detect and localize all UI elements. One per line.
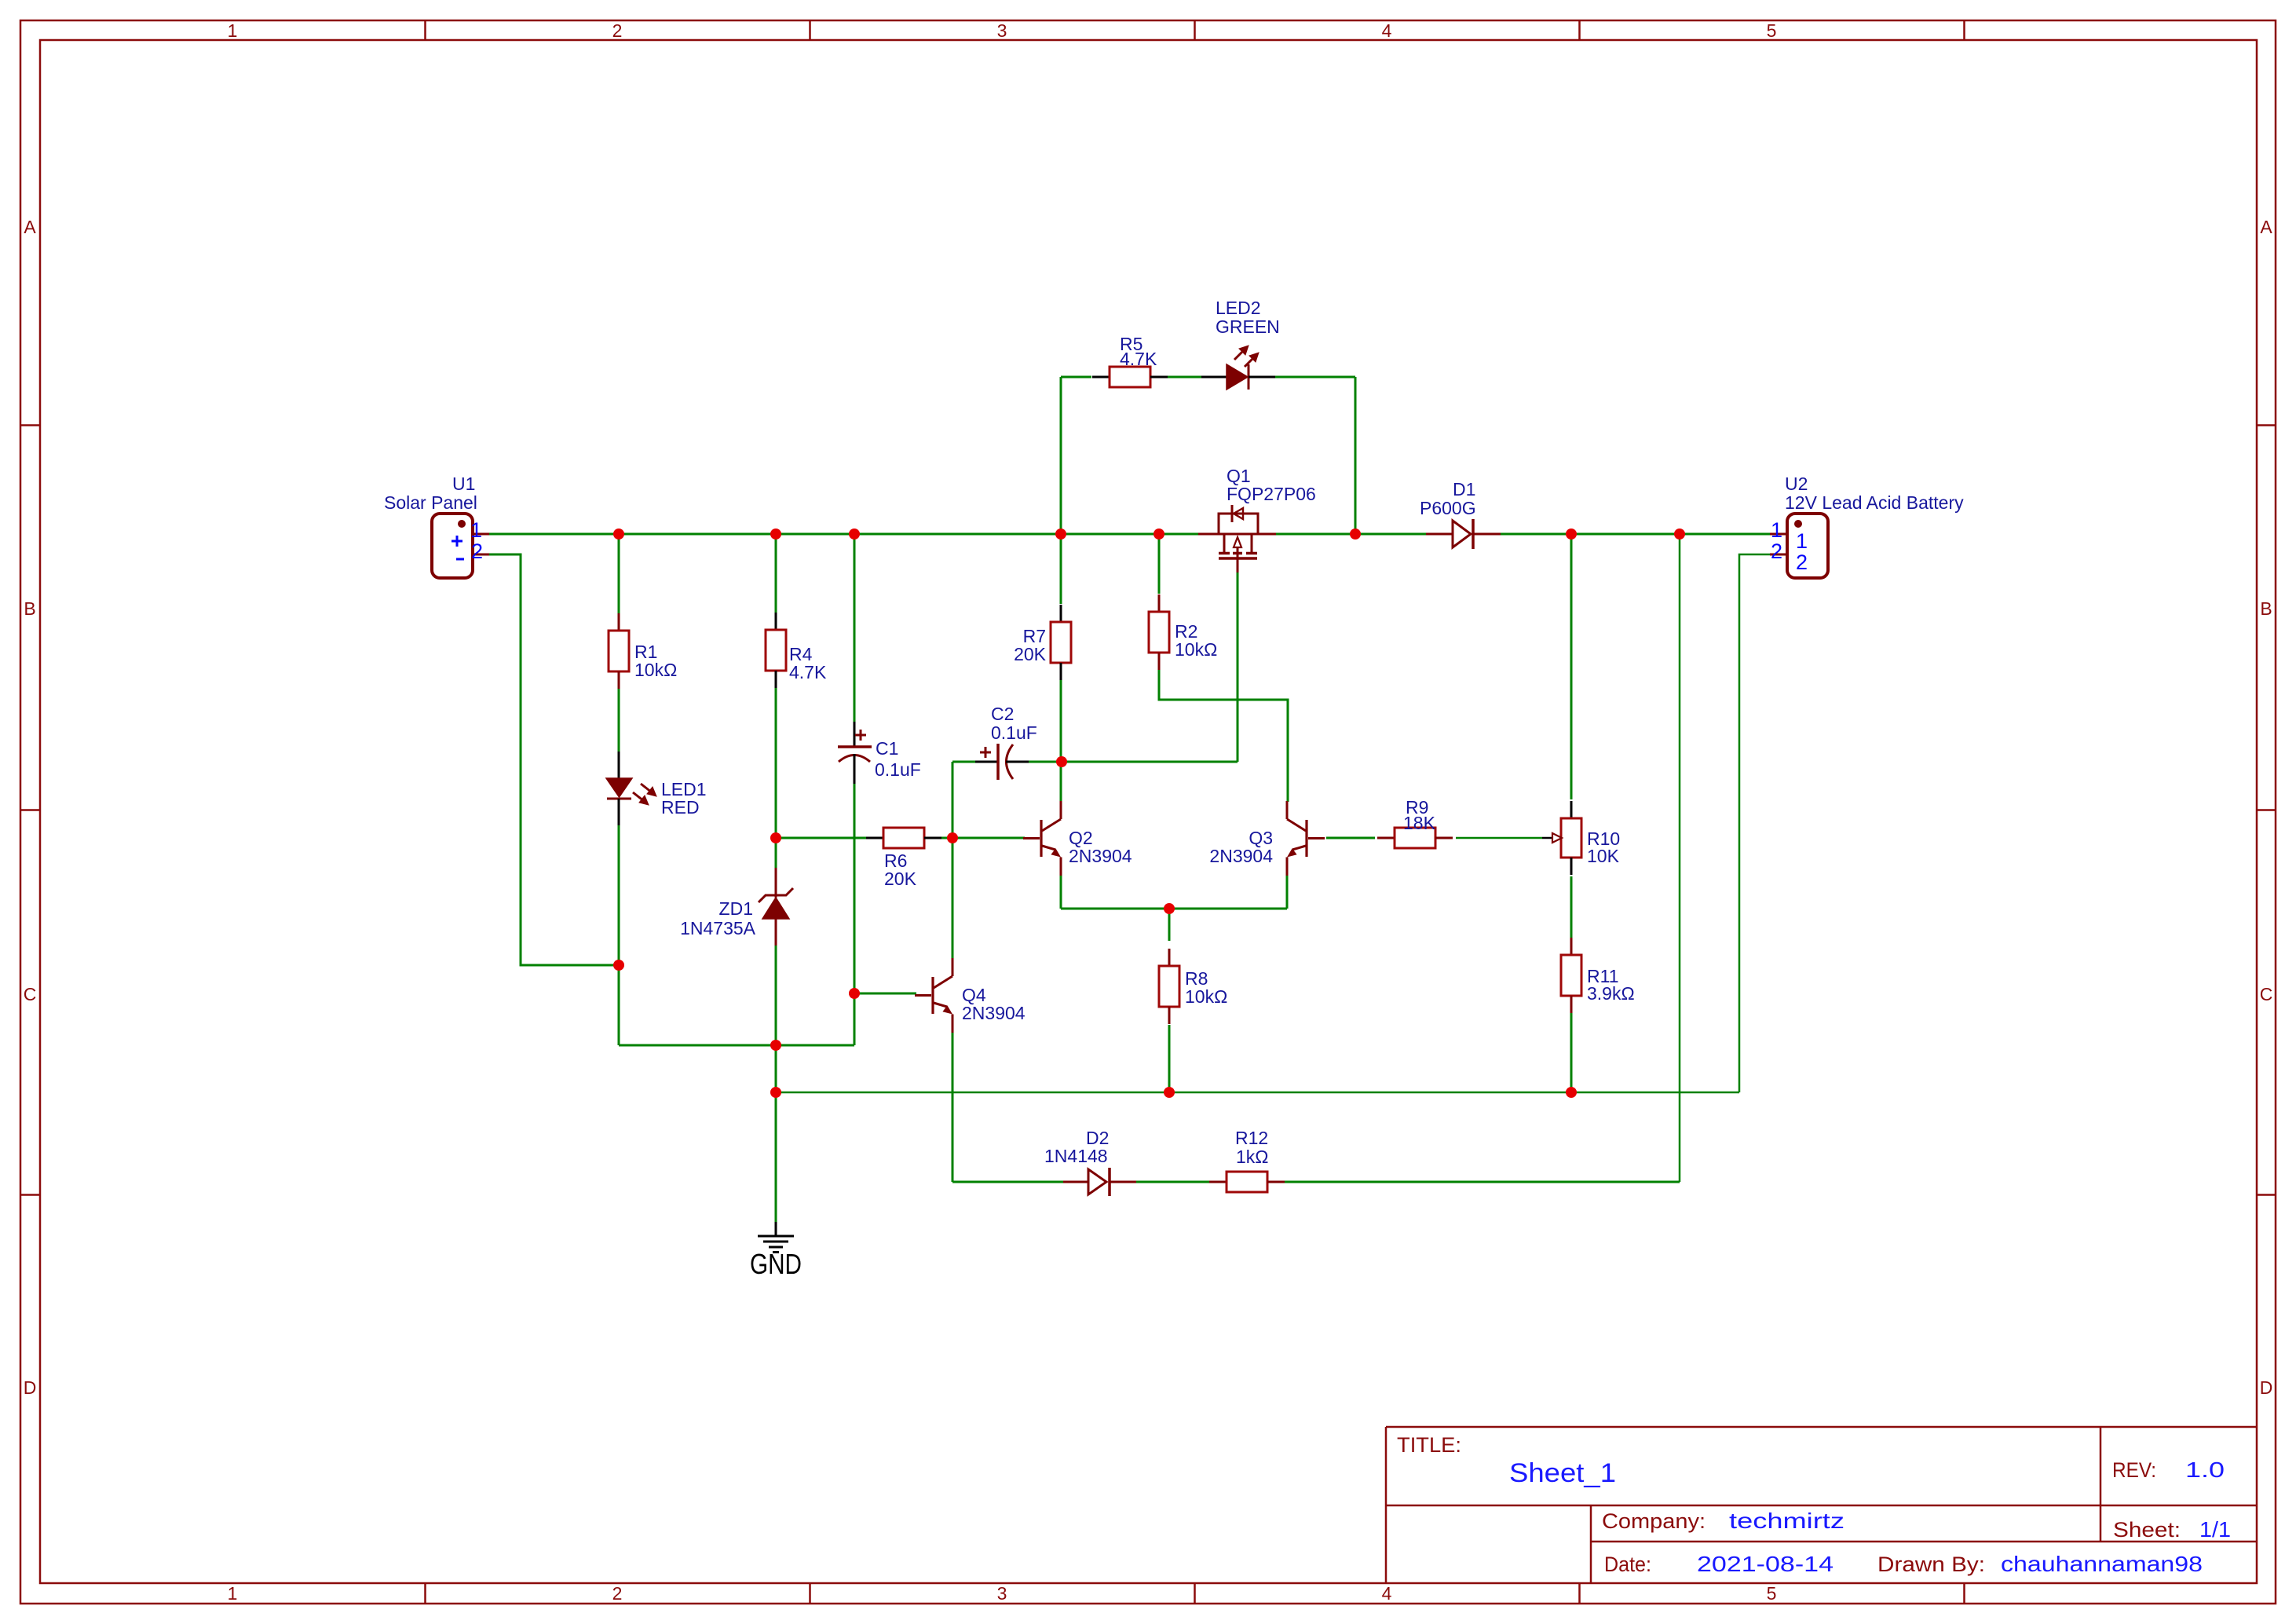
wire R6 left lead from ZD1 net bbox=[776, 837, 867, 839]
junction node J6 bbox=[1350, 529, 1361, 540]
wire D2 line left segment bbox=[952, 1181, 1063, 1183]
svg-text:1/1: 1/1 bbox=[2199, 1517, 2231, 1542]
svg-text:3: 3 bbox=[997, 20, 1007, 41]
wire R7 bottom to C2 junction bbox=[1060, 678, 1062, 762]
wire main positive bus from solar panel pin1 to Q1 source bbox=[489, 533, 1198, 536]
frame tick top 5 bbox=[1963, 20, 1965, 40]
resistor R5 bbox=[1092, 367, 1168, 387]
junction node J13 bbox=[770, 1040, 781, 1051]
capacitor C2 (polarized) bbox=[975, 744, 1029, 780]
junction node J7 bbox=[1566, 529, 1577, 540]
svg-text:2: 2 bbox=[612, 20, 623, 41]
wire R6 right to Q2 base bbox=[941, 837, 1025, 839]
frame tick top 1 bbox=[424, 20, 426, 40]
svg-text:10kΩ: 10kΩ bbox=[1185, 986, 1227, 1007]
svg-text:2N3904: 2N3904 bbox=[1209, 846, 1273, 866]
transistor Q4 NPN 2N3904 bbox=[915, 958, 952, 1033]
svg-text:A: A bbox=[24, 217, 36, 237]
wire Q4 base from junction bbox=[854, 993, 916, 995]
wire R2 bottom jog to Q3 collector bbox=[1159, 669, 1288, 802]
wire C2 left corner down to R6/Q4 junction bbox=[952, 762, 954, 838]
wire R4 top lead from bus bbox=[775, 534, 777, 613]
title block frame bbox=[1386, 1427, 2257, 1583]
capacitor C1 (polarized) bbox=[838, 722, 872, 784]
wire long vertical from bus to D2/R12 line bbox=[1679, 534, 1681, 1182]
svg-text:4: 4 bbox=[1382, 20, 1392, 41]
frame tick left 3 bbox=[20, 1194, 40, 1196]
transistor Q1 P-MOSFET FQP27P06 bbox=[1198, 505, 1276, 572]
wire ground rail y=1391 bbox=[776, 1092, 1739, 1094]
svg-text:C: C bbox=[2260, 984, 2273, 1004]
resistor R6 bbox=[866, 828, 941, 848]
svg-text:5: 5 bbox=[1767, 20, 1777, 41]
svg-text:10K: 10K bbox=[1587, 846, 1620, 866]
svg-text:2N3904: 2N3904 bbox=[962, 1003, 1026, 1023]
svg-text:C1: C1 bbox=[876, 738, 898, 759]
wire R4 bottom to R6 junction and ZD1 cathode bbox=[775, 688, 777, 868]
wire R10 top lead from bus bbox=[1570, 534, 1573, 799]
svg-text:1.0: 1.0 bbox=[2185, 1458, 2225, 1482]
svg-text:5: 5 bbox=[1767, 1583, 1777, 1604]
svg-text:10kΩ: 10kΩ bbox=[1175, 639, 1217, 660]
svg-text:2021-08-14: 2021-08-14 bbox=[1697, 1552, 1834, 1576]
frame tick left 1 bbox=[20, 424, 40, 426]
svg-text:GREEN: GREEN bbox=[1216, 316, 1280, 337]
svg-text:4: 4 bbox=[1382, 1583, 1392, 1604]
resistor R1 bbox=[609, 613, 629, 689]
svg-text:chauhannaman98: chauhannaman98 bbox=[2001, 1552, 2203, 1576]
wire Q3 emitter down to emitter bus bbox=[1286, 876, 1289, 909]
svg-text:1: 1 bbox=[470, 518, 482, 542]
junction node J3 bbox=[849, 529, 860, 540]
svg-text:R12: R12 bbox=[1235, 1128, 1268, 1148]
wire LED1 cathode down to junction and corner bbox=[618, 825, 620, 1045]
svg-text:1kΩ: 1kΩ bbox=[1236, 1147, 1269, 1167]
svg-text:REV:: REV: bbox=[2112, 1458, 2156, 1482]
wire between R5 and LED2 bbox=[1150, 376, 1201, 379]
R10 wiper pin lead bbox=[1542, 837, 1552, 839]
junction node J11 bbox=[947, 832, 958, 843]
svg-text:2: 2 bbox=[1771, 540, 1782, 563]
frame tick right 3 bbox=[2257, 1194, 2276, 1196]
frame tick top 4 bbox=[1578, 20, 1581, 40]
svg-text:Sheet_1: Sheet_1 bbox=[1509, 1458, 1616, 1488]
connector U1 Solar Panel bbox=[432, 514, 489, 578]
svg-text:TITLE:: TITLE: bbox=[1397, 1433, 1461, 1457]
svg-text:0.1uF: 0.1uF bbox=[875, 759, 921, 780]
wire ZD1 anode down through junctions to GND bbox=[775, 946, 777, 1222]
svg-text:4.7K: 4.7K bbox=[1120, 349, 1157, 369]
resistor R8 bbox=[1159, 949, 1179, 1024]
junction node J2 bbox=[770, 529, 781, 540]
potentiometer R10 bbox=[1552, 801, 1581, 875]
junction node J4 bbox=[1055, 529, 1066, 540]
frame tick right 1 bbox=[2257, 424, 2276, 426]
svg-text:Date:: Date: bbox=[1604, 1553, 1651, 1576]
svg-text:1: 1 bbox=[228, 20, 238, 41]
wire R10 bottom to R11 top bbox=[1570, 876, 1573, 938]
resistor R12 bbox=[1209, 1172, 1285, 1192]
svg-text:2: 2 bbox=[612, 1583, 623, 1604]
junction node J12 bbox=[1056, 756, 1067, 767]
wire LED2 to loop right corner bbox=[1275, 376, 1355, 379]
resistor R7 bbox=[1051, 605, 1071, 680]
wire Q4 emitter down to D2 line bbox=[952, 1033, 954, 1182]
svg-text:D: D bbox=[2260, 1377, 2273, 1398]
zener diode ZD1 bbox=[759, 868, 793, 946]
wire C1 top lead from bus bbox=[854, 534, 856, 722]
svg-text:B: B bbox=[24, 598, 35, 619]
svg-text:3: 3 bbox=[997, 1583, 1007, 1604]
wire R5/LED2 loop left vertical bbox=[1060, 377, 1062, 534]
svg-text:0.1uF: 0.1uF bbox=[991, 722, 1037, 743]
junction node J14 bbox=[849, 988, 860, 999]
junction node J8 bbox=[1674, 529, 1685, 540]
transistor Q3 NPN 2N3904 bbox=[1287, 801, 1325, 876]
wire C2 right plate to junction and PMOS gate bbox=[1029, 761, 1238, 763]
wire Q4 collector up to junction bbox=[952, 838, 954, 959]
svg-text:20K: 20K bbox=[884, 869, 917, 889]
svg-text:Solar Panel: Solar Panel bbox=[384, 492, 477, 513]
resistor R11 bbox=[1561, 938, 1581, 1013]
wire emitter bus y=1157 bbox=[1061, 908, 1287, 910]
wire R5/LED2 loop top left segment bbox=[1061, 376, 1091, 379]
wire R8 top lead from emitter bus bbox=[1168, 909, 1171, 941]
svg-text:4.7K: 4.7K bbox=[789, 662, 827, 682]
junction node J1 bbox=[613, 529, 624, 540]
svg-text:LED2: LED2 bbox=[1216, 298, 1261, 318]
svg-text:1: 1 bbox=[1771, 518, 1782, 542]
svg-text:C: C bbox=[24, 984, 37, 1004]
frame tick bottom 5 bbox=[1963, 1583, 1965, 1604]
svg-text:Company:: Company: bbox=[1602, 1509, 1706, 1533]
wire Q1 drain to D1 anode bbox=[1276, 533, 1426, 536]
svg-text:10kΩ: 10kΩ bbox=[634, 660, 677, 680]
wire R9 to R10 wiper arrow bbox=[1456, 837, 1542, 839]
svg-text:RED: RED bbox=[661, 797, 700, 817]
svg-text:A: A bbox=[2260, 217, 2272, 237]
svg-text:D: D bbox=[24, 1377, 37, 1398]
wire R7 top lead from bus bbox=[1060, 534, 1062, 604]
junction node J10 bbox=[770, 832, 781, 843]
svg-text:U1: U1 bbox=[452, 474, 475, 494]
frame tick top 3 bbox=[1194, 20, 1196, 40]
svg-text:1N4735A: 1N4735A bbox=[680, 918, 756, 938]
junction node J16 bbox=[1164, 1087, 1175, 1098]
svg-text:C2: C2 bbox=[991, 704, 1014, 724]
wire PMOS gate vertical bbox=[1237, 572, 1239, 762]
frame tick left 2 bbox=[20, 809, 40, 811]
svg-text:Sheet:: Sheet: bbox=[2113, 1518, 2181, 1542]
frame tick bottom 2 bbox=[809, 1583, 811, 1604]
svg-text:ZD1: ZD1 bbox=[719, 898, 753, 919]
svg-text:U2: U2 bbox=[1785, 474, 1808, 494]
wire R5/LED2 loop right vertical bbox=[1355, 377, 1357, 534]
transistor Q2 NPN 2N3904 bbox=[1023, 801, 1061, 876]
resistor R2 bbox=[1149, 594, 1169, 670]
svg-text:2N3904: 2N3904 bbox=[1069, 846, 1132, 866]
wire Q3 base to R9 bbox=[1326, 837, 1375, 839]
diode D2 bbox=[1063, 1168, 1136, 1196]
wire R1 top lead from bus bbox=[618, 534, 620, 615]
ground symbol GND bbox=[758, 1222, 794, 1253]
resistor R4 bbox=[766, 613, 786, 688]
wire R1 bottom to LED1 anode bbox=[618, 687, 620, 752]
junction node J18 bbox=[1164, 903, 1175, 914]
wire R8 bottom to ground rail bbox=[1168, 1025, 1171, 1092]
svg-text:1N4148: 1N4148 bbox=[1044, 1146, 1108, 1166]
junction node J17 bbox=[1566, 1087, 1577, 1098]
frame tick top 2 bbox=[809, 20, 811, 40]
LED LED2 (GREEN) bbox=[1201, 346, 1275, 390]
wire R11 bottom to ground rail bbox=[1570, 1010, 1573, 1092]
svg-text:3.9kΩ: 3.9kΩ bbox=[1587, 983, 1635, 1004]
wire Q2 emitter down to emitter bus bbox=[1060, 876, 1062, 909]
wire D1 cathode to battery pin1 bbox=[1501, 533, 1770, 536]
wire solar panel minus down bbox=[489, 554, 617, 965]
svg-text:18K: 18K bbox=[1403, 813, 1436, 833]
junction node J5 bbox=[1153, 529, 1164, 540]
wire battery minus down to ground rail bbox=[1739, 554, 1770, 1092]
wire C2 left lead horizontal bbox=[952, 761, 975, 763]
LED LED1 (RED) bbox=[606, 752, 656, 825]
svg-text:Drawn By:: Drawn By: bbox=[1877, 1553, 1985, 1576]
wire R2 top lead from bus bbox=[1158, 534, 1161, 594]
frame tick bottom 1 bbox=[424, 1583, 426, 1604]
frame tick bottom 3 bbox=[1194, 1583, 1196, 1604]
svg-text:20K: 20K bbox=[1014, 644, 1047, 664]
svg-text:1: 1 bbox=[228, 1583, 238, 1604]
svg-text:12V Lead Acid Battery: 12V Lead Acid Battery bbox=[1785, 492, 1964, 513]
svg-text:FQP27P06: FQP27P06 bbox=[1227, 484, 1316, 504]
svg-text:2: 2 bbox=[1796, 550, 1808, 574]
svg-text:techmirtz: techmirtz bbox=[1729, 1509, 1844, 1533]
svg-text:D1: D1 bbox=[1453, 479, 1475, 499]
junction node J9 bbox=[613, 960, 624, 971]
svg-text:P600G: P600G bbox=[1420, 498, 1476, 518]
wire horizontal rail y=1331 LED1/solar-minus to C1 net bbox=[619, 1044, 854, 1047]
svg-text:1: 1 bbox=[1796, 529, 1808, 553]
diode D1 bbox=[1426, 519, 1501, 549]
svg-text:GND: GND bbox=[750, 1248, 802, 1280]
frame tick right 2 bbox=[2257, 809, 2276, 811]
junction node J15 bbox=[770, 1087, 781, 1098]
resistor R9 bbox=[1377, 828, 1453, 848]
svg-text:B: B bbox=[2260, 598, 2272, 619]
wire C1 bottom down across R6 line to Q4 base junction and corner bbox=[854, 784, 856, 1045]
connector U2 12V Lead Acid Battery bbox=[1770, 514, 1828, 578]
frame tick bottom 4 bbox=[1578, 1583, 1581, 1604]
wire R12 to right corner bbox=[1285, 1181, 1680, 1183]
wire Q2 collector up to C2 junction bbox=[1060, 762, 1062, 802]
wire between D2 and R12 bbox=[1136, 1181, 1209, 1183]
svg-text:2: 2 bbox=[471, 540, 483, 563]
